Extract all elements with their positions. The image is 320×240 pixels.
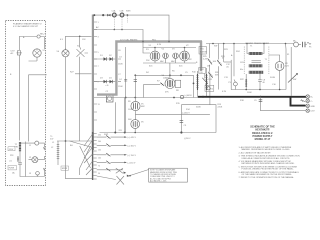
svg-text:75: 75 xyxy=(98,166,100,168)
misc value labels xyxy=(10,36,296,175)
svg-text:12AX7: 12AX7 xyxy=(163,76,170,79)
svg-text:100K: 100K xyxy=(128,109,133,111)
main B- bus xyxy=(94,96,306,99)
socket J2 xyxy=(32,156,44,163)
wires bottom left xyxy=(20,142,44,177)
fuse holder F2 xyxy=(294,42,301,47)
svg-text:6.3V: 6.3V xyxy=(222,91,227,93)
series regulator V2 6L6 xyxy=(179,45,189,67)
binding post 4 xyxy=(306,109,315,113)
capacitor C20 xyxy=(9,152,22,169)
svg-text:PRI: PRI xyxy=(10,155,14,157)
svg-text:C1A: C1A xyxy=(112,10,117,13)
svg-text:PIN 2: PIN 2 xyxy=(152,39,156,41)
series regulator V1 6L6 xyxy=(149,45,160,67)
selenium rectifier bank 1 xyxy=(94,55,116,61)
svg-text:ALL VALUES +/- 20%.: ALL VALUES +/- 20%. xyxy=(150,180,167,183)
resistor R12 xyxy=(208,72,213,78)
svg-text:5V4G: 5V4G xyxy=(270,77,276,79)
svg-text:7. REFER TO THE OPERATION SEC: 7. REFER TO THE OPERATION SECTION OF THE… xyxy=(239,176,295,179)
socket J3 xyxy=(36,147,45,177)
heater note text xyxy=(120,38,156,41)
transformer T2 primary winding xyxy=(15,142,22,162)
title block xyxy=(250,125,275,141)
svg-text:SPKR: SPKR xyxy=(62,168,68,170)
bias rectifier V6 xyxy=(57,49,70,57)
svg-text:200: 200 xyxy=(98,141,101,143)
regulator tube heater wire xyxy=(143,47,196,63)
enclosure header text xyxy=(13,23,43,29)
svg-text:50: 50 xyxy=(98,173,100,175)
output callout row 5 xyxy=(97,168,123,171)
switch SW3 xyxy=(126,11,131,23)
svg-text:(+) 300 V: (+) 300 V xyxy=(128,145,137,147)
dropping resistors R10 R11 xyxy=(192,71,199,98)
resistor R21 xyxy=(217,44,225,90)
binding post 1 xyxy=(306,95,314,99)
svg-text:100K: 100K xyxy=(247,92,252,94)
svg-text:1W: 1W xyxy=(207,66,210,68)
svg-text:60c: 60c xyxy=(240,69,243,71)
label block bottom xyxy=(8,166,17,175)
svg-text:+ 40: + 40 xyxy=(105,85,108,87)
output bus thick black xyxy=(291,97,306,106)
thermistor R30 xyxy=(11,51,23,56)
label block L xyxy=(8,147,15,151)
transistor X1 xyxy=(77,46,89,57)
bias output wire xyxy=(254,97,306,111)
binding post 3 xyxy=(306,104,316,108)
svg-text:SURGE: SURGE xyxy=(200,52,208,54)
svg-text:C1B: C1B xyxy=(120,11,125,13)
svg-text:150K: 150K xyxy=(118,64,123,66)
svg-text:(-)150 V: (-)150 V xyxy=(184,138,191,140)
svg-text:250: 250 xyxy=(98,135,101,137)
svg-text:MARKED. RESISTANCE VALUES IN O: MARKED. RESISTANCE VALUES IN OHMS. K=100… xyxy=(242,148,291,151)
OA2 regulator 1 xyxy=(162,49,169,59)
bleeder resistor R22 xyxy=(240,74,247,90)
chassis bus thick path xyxy=(97,41,202,96)
voltage reference V5 xyxy=(131,75,146,110)
svg-text:BETWEEN POINTS INDICATED AND C: BETWEEN POINTS INDICATED AND CHASSIS GRO… xyxy=(242,162,296,165)
svg-text:6.3V: 6.3V xyxy=(157,44,162,46)
rotary switch SW1 wafer xyxy=(93,132,101,180)
wire interconnect xyxy=(50,136,93,179)
sense divider wire xyxy=(209,73,211,105)
resistor R11 xyxy=(205,68,213,98)
T1 primary winding xyxy=(247,44,264,56)
tube V7 heater xyxy=(33,49,46,57)
T1 core lines xyxy=(252,61,261,63)
svg-text:OF THE SAME DESIGNATION ON THE: OF THE SAME DESIGNATION ON THE FRONT PAN… xyxy=(242,173,293,176)
interlock arrow xyxy=(288,47,298,96)
svg-text:(+) 445 V: (+) 445 V xyxy=(128,137,137,139)
svg-text:2. ALL CAPACITOR VALUES IN MF: 2. ALL CAPACITOR VALUES IN MF. xyxy=(239,151,272,154)
fuse F1 xyxy=(107,14,110,17)
HV return wire xyxy=(231,44,286,91)
junction on chassis bar xyxy=(142,41,170,43)
svg-text:SW: SW xyxy=(293,79,296,81)
wire heater drop xyxy=(19,55,46,141)
svg-text:(+)150 V: (+)150 V xyxy=(182,113,190,115)
rectifier V8 5V4 xyxy=(269,55,290,90)
filter cap C8 xyxy=(258,74,266,90)
svg-text:(+) 150 V: (+) 150 V xyxy=(128,155,137,157)
output callout row 2 xyxy=(97,144,137,148)
svg-text:R13: R13 xyxy=(119,130,122,132)
svg-text:USED AS A COMMON RETURN FOR AL: USED AS A COMMON RETURN FOR ALL CIRCUITS… xyxy=(242,157,291,160)
AC return wire xyxy=(94,26,150,53)
AC input wire right section xyxy=(206,43,294,45)
can capacitor C1B xyxy=(120,11,125,30)
svg-text:(+)445V: (+)445V xyxy=(185,95,193,97)
switch wiper wires xyxy=(84,134,130,185)
svg-text:(-) 150 V: (-) 150 V xyxy=(128,162,136,164)
pilot lamp PL2 xyxy=(229,80,238,90)
svg-text:115V: 115V xyxy=(240,62,245,64)
svg-text:SW: SW xyxy=(214,46,217,48)
svg-text:MODEL IP-17: MODEL IP-17 xyxy=(255,138,271,141)
cathode bottom wire xyxy=(100,98,217,141)
pilot lamp PL1 xyxy=(19,34,45,51)
output callout row 4 xyxy=(97,161,136,165)
svg-text:C-: C- xyxy=(311,101,313,103)
svg-text:150K: 150K xyxy=(118,86,123,88)
AC line wire xyxy=(93,14,169,40)
output callout row 3 xyxy=(97,153,137,157)
divider wire right xyxy=(176,103,216,133)
thermal switch xyxy=(202,73,207,85)
screen dropping resistor R3 xyxy=(118,47,127,132)
transformer T1 dashed core xyxy=(244,47,269,75)
svg-text:6.3 V AC HEATER CIRCUIT: 6.3 V AC HEATER CIRCUIT xyxy=(13,25,39,28)
svg-text:POSITION, VIEWED FROM THE FRON: POSITION, VIEWED FROM THE FRONT OF THE P… xyxy=(242,168,295,171)
svg-text:C11: C11 xyxy=(184,125,187,127)
terminal strip bus xyxy=(92,15,94,151)
T1 filament secondary xyxy=(249,59,268,74)
primary circuit components column xyxy=(199,47,208,68)
output callout row 1 xyxy=(97,135,137,139)
line plug P1 xyxy=(303,42,313,49)
binding post 2 xyxy=(301,99,313,103)
notes list xyxy=(239,146,301,179)
primary vertical wires xyxy=(224,44,234,90)
socket J1 xyxy=(35,141,45,147)
svg-text:2.2K: 2.2K xyxy=(203,59,208,61)
svg-text:500K: 500K xyxy=(196,107,201,109)
resistor R20 xyxy=(208,44,213,72)
grid wire row xyxy=(134,63,194,98)
tube top label xyxy=(157,44,162,46)
cathode box xyxy=(175,80,181,87)
output jack J4 xyxy=(180,95,192,99)
voltage reference V6b xyxy=(131,111,145,129)
T1 HV secondary xyxy=(249,64,262,67)
bias filter capacitor C2 xyxy=(105,85,113,102)
svg-text:100: 100 xyxy=(98,158,101,160)
notes box with leader xyxy=(128,168,187,182)
svg-text:115V: 115V xyxy=(9,149,14,151)
filament transformer dashed enclosure xyxy=(6,21,46,186)
can capacitor C1A xyxy=(112,10,117,30)
svg-text:150: 150 xyxy=(98,150,101,152)
choke L2 xyxy=(51,141,59,165)
selenium rectifier bank 2 xyxy=(94,78,116,84)
wire loop 2 xyxy=(66,36,92,142)
svg-text:FUSE: FUSE xyxy=(9,168,15,170)
amplifier V4 12AX7 xyxy=(162,75,176,89)
label box left xyxy=(199,67,206,73)
interstage wire xyxy=(135,113,210,115)
OA2 regulator 2 xyxy=(172,49,178,59)
svg-text:6.3V: 6.3V xyxy=(311,111,316,113)
strip ticks xyxy=(94,22,100,120)
grid resistor R7 xyxy=(144,81,165,86)
relay K1 xyxy=(205,85,214,91)
svg-text:220K: 220K xyxy=(218,107,223,109)
svg-text:GND: GND xyxy=(311,106,316,108)
power transformer label xyxy=(246,42,270,48)
